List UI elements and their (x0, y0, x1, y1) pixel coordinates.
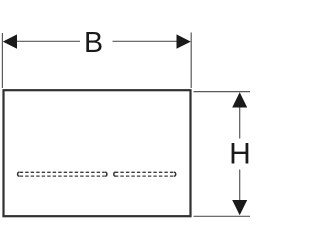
extension line top (H) (194, 91, 251, 93)
dimension line B left segment (15, 40, 80, 42)
dimension line B right segment (113, 40, 179, 42)
dashed slot 2 bottom line (115, 175, 174, 177)
dashed slot 2 right cap (174, 172, 176, 176)
extension line bottom (H) (194, 215, 251, 217)
dashed slot 2 top line (115, 171, 174, 173)
extension line right (B) (190, 33, 192, 89)
svg-text:H: H (229, 137, 250, 170)
dimension line H lower segment (239, 170, 241, 202)
arrowhead H down (232, 200, 247, 215)
dashed slot 1 top line (20, 171, 105, 173)
dashed slot 2 left cap (114, 172, 116, 176)
arrowhead H up (232, 92, 247, 107)
dashed slot 1 right cap (105, 172, 107, 176)
plate outline rectangle (4, 90, 191, 216)
dimension line H upper segment (239, 106, 241, 139)
extension line left (B) (1, 33, 3, 88)
arrowhead B right (177, 34, 191, 48)
arrowhead B left (3, 34, 17, 48)
dashed slot 1 left cap (18, 172, 20, 176)
svg-text:B: B (84, 27, 103, 59)
dashed slot 1 bottom line (20, 175, 105, 177)
